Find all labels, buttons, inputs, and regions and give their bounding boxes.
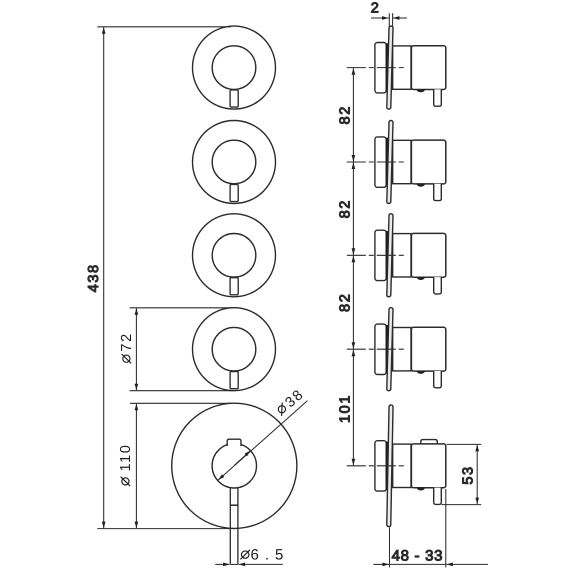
dim 82 (rows 1-2): dimension line with arrows [352, 68, 354, 162]
svg-text:53: 53 [460, 465, 476, 484]
dim 101 (rows 4-5): dimension line with arrows [352, 350, 354, 466]
valve 2 side: lever pin [434, 184, 442, 201]
valve 2 side: in-wall rough body [375, 137, 386, 187]
handle 3 front: lever slot [230, 278, 238, 295]
dim 48-33: left extension line [389, 528, 391, 568]
dim 53: dimension line with arrows [476, 445, 478, 504]
dim Ø6.5: right arrow line [239, 563, 283, 565]
valve 4 side: handle body [411, 327, 445, 371]
valve 5 side: screw bump under body [417, 488, 425, 491]
handle 2 front: knob circle [212, 140, 256, 184]
valve 3 side: centerline [347, 254, 406, 256]
valve 2 side: centerline [347, 161, 406, 163]
dim Ø38: diagonal dimension line [218, 401, 307, 480]
valve 1 side: handle body [411, 46, 445, 90]
dim 82 (rows 3-4): dimension line with arrows [352, 256, 354, 349]
dim 438: bottom extension line [97, 528, 236, 530]
valve 4 side: knob neck [393, 328, 411, 371]
valve 4 side: in-wall rough body [375, 324, 386, 374]
valve 2 side: handle body [411, 140, 445, 184]
handle 2 front: lever slot [230, 184, 238, 201]
mixer handle front: lever shaft [229, 488, 231, 564]
valve 2 side: dark seam band [386, 138, 389, 187]
handle 1 front: escutcheon circle [193, 26, 276, 109]
valve 1 side: wall plate (2mm escutcheon edge-on) [387, 26, 393, 109]
valve 4 side: dark seam band [386, 325, 389, 374]
valve 1 side: screw bump under body [417, 89, 425, 92]
dim Ø72: label [119, 332, 135, 363]
dim Ø72: dimension line with arrows [135, 308, 137, 390]
handle 4 front: escutcheon circle [193, 308, 276, 391]
handle 4 front: knob circle [212, 327, 256, 371]
mixer handle front: safety button [227, 439, 241, 446]
dim Ø72: bottom extension line [130, 390, 233, 392]
dim 48-33: middle segment [390, 563, 446, 565]
dim 48-33: right arrow line [446, 563, 488, 565]
dim 48-33: left arrow line [373, 563, 389, 565]
valve 5 side: safety button on top [421, 440, 438, 446]
dim Ø110: label [118, 444, 134, 487]
handle 3 front: escutcheon circle [193, 214, 276, 297]
valve 3 side: in-wall rough body [375, 230, 386, 280]
svg-text:82: 82 [338, 199, 354, 218]
dim Ø72: top extension line [130, 307, 232, 309]
valve 1 side: lever pin [434, 89, 442, 106]
handle 4 front: lever slot [230, 372, 238, 389]
dim 438: top extension line [97, 26, 231, 28]
svg-text:82: 82 [338, 105, 354, 124]
valve 3 side: knob neck [393, 234, 411, 277]
svg-text:48 - 33: 48 - 33 [392, 547, 444, 564]
valve 1 side: centerline [347, 67, 406, 69]
svg-text:82: 82 [338, 293, 354, 312]
valve 5 side: in-wall rough body [375, 441, 386, 491]
valve 3 side: handle body [411, 233, 445, 277]
valve 2 side: knob neck [393, 140, 411, 183]
valve 4 side view [347, 308, 446, 391]
valve 5 side: lever pin [434, 488, 442, 505]
valve 5 (mixer) side view [347, 405, 446, 527]
svg-text:6.5: 6.5 [251, 546, 290, 563]
valve 3 side: dark seam band [386, 231, 389, 280]
valve 5 side: handle body [411, 444, 445, 488]
valve 3 side: lever pin [434, 277, 442, 294]
dim 2 (plate thickness): right arrow line [393, 17, 407, 19]
valve 5 side: wall plate (2mm escutcheon edge-on) [387, 405, 393, 527]
handle 1 front: lever slot [230, 90, 238, 107]
svg-text:72: 72 [119, 332, 135, 351]
dim 53: top extension line [447, 443, 482, 445]
svg-text:2: 2 [371, 0, 380, 16]
dim Ø38: label [274, 386, 308, 419]
svg-text:438: 438 [86, 263, 102, 292]
SIDE VIEWS [347, 26, 446, 527]
handle 1 front: knob circle [212, 46, 256, 90]
valve 5 side: centerline [347, 465, 406, 467]
dim Ø110: dimension line with arrows [135, 404, 137, 529]
mixer handle front: knob circle [212, 444, 256, 488]
dim Ø6.5: label [240, 546, 289, 563]
mixer handle front: escutcheon circle [172, 403, 297, 528]
handle 3 front: knob circle [212, 234, 256, 278]
valve 2 side view [347, 120, 446, 203]
dim 2 (plate thickness): right extension line [392, 13, 394, 27]
dim Ø6.5: middle segment [230, 563, 238, 565]
dim Ø38: second arrow at knob edge [234, 451, 250, 466]
valve 3 side: screw bump under body [417, 277, 425, 280]
valve 5 side: knob neck [393, 444, 411, 487]
valve 2 side: wall plate (2mm escutcheon edge-on) [387, 120, 393, 203]
valve 2 side: screw bump under body [417, 184, 425, 187]
svg-text:110: 110 [118, 444, 134, 472]
valve 5 side: dark seam band [386, 442, 389, 491]
dim 82 (rows 2-3): dimension line with arrows [352, 162, 354, 255]
valve 1 side: in-wall rough body [375, 43, 386, 93]
svg-text:101: 101 [338, 394, 354, 423]
valve 1 side: knob neck [393, 46, 411, 89]
dim 438: dimension line with arrows [103, 27, 105, 528]
mixer handle front: lever joint line [230, 504, 238, 506]
dim 2 (plate thickness): left extension line [388, 13, 390, 26]
FRONT VIEW [172, 26, 297, 564]
DIMENSIONS [86, 0, 488, 567]
dim 48-33: right extension line [445, 489, 447, 567]
valve 1 side: dark seam band [386, 43, 389, 92]
valve 4 side: lever pin [434, 371, 442, 388]
valve 4 side: wall plate (2mm escutcheon edge-on) [387, 308, 393, 391]
valve 3 side: wall plate (2mm escutcheon edge-on) [387, 214, 393, 297]
dim 2 (plate thickness): left arrow line [371, 17, 389, 19]
valve 1 side view [347, 26, 446, 109]
dim Ø110: top extension line [130, 402, 232, 404]
valve 3 side view [347, 214, 446, 297]
valve 4 side: centerline [347, 348, 406, 350]
valve 4 side: screw bump under body [417, 371, 425, 374]
dim Ø6.5: left arrow line [215, 563, 230, 565]
dim 53: bottom extension line [442, 504, 482, 506]
handle 2 front: escutcheon circle [193, 121, 276, 204]
